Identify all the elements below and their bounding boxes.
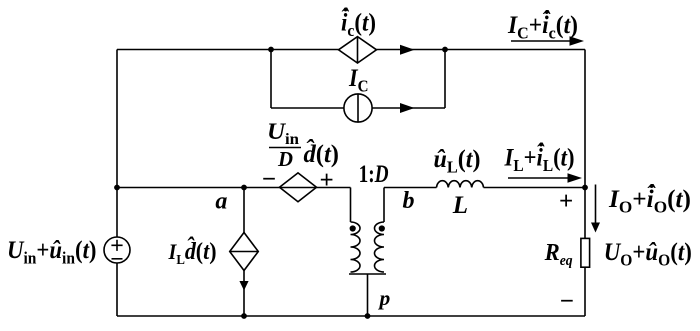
svg-text:p: p [378, 286, 391, 310]
arrowhead on ic branch top [400, 45, 415, 55]
wire node b riser [383, 188, 385, 223]
wire ic branch lower horizontal right [372, 107, 445, 109]
svg-text:IL+i̇̂L(t): IL+i̇̂L(t) [504, 142, 575, 175]
svg-text:+: + [320, 167, 334, 194]
svg-text:+: + [559, 188, 573, 215]
wire bottom rail [117, 315, 585, 317]
wire ILd source top lead [243, 188, 245, 233]
wire right rail upper [584, 50, 586, 239]
arrow line for IL+iL label [508, 177, 569, 179]
inductor L [437, 181, 484, 188]
svg-text:D: D [277, 147, 293, 171]
wire ic branch right riser [444, 50, 446, 109]
transformer T1 left winding [351, 222, 361, 272]
svg-text:a: a [215, 189, 227, 215]
svg-text:L: L [452, 192, 468, 219]
transformer T1 right winding [375, 222, 385, 272]
arrowhead IC+ic label arrow [570, 36, 585, 46]
arrowhead on IC branch bottom [400, 103, 415, 113]
voltage source Uin circle [104, 237, 130, 263]
current source IC circle [344, 94, 372, 122]
wire ic branch left drop [270, 50, 272, 109]
svg-text:ûL(t): ûL(t) [434, 146, 481, 177]
voltage source minus sign [112, 258, 123, 260]
node junction top left of ic branch [268, 47, 274, 53]
resistor Req [581, 238, 590, 267]
voltage source plus sign [111, 240, 122, 251]
svg-text:IC+i̇̂c(t): IC+i̇̂c(t) [507, 10, 578, 43]
wire inductor to right rail [484, 187, 586, 189]
wire left rail upper [116, 50, 118, 238]
wire drop to transformer left winding [350, 188, 352, 223]
wire ic branch lower horizontal left [271, 107, 344, 109]
svg-text:IO+i̇̂O(t): IO+i̇̂O(t) [608, 184, 691, 217]
dependent current source ILd diamond [230, 233, 259, 271]
arrowhead IL+iL label arrow [568, 173, 583, 183]
node junction right rail middle [582, 185, 588, 191]
wire left rail lower [116, 263, 118, 316]
node junction top right of ic branch [442, 47, 448, 53]
wire ILd source bottom lead [243, 271, 245, 317]
svg-text:ILd̂(t): ILd̂(t) [168, 237, 217, 268]
svg-text:b: b [403, 188, 415, 214]
svg-text:−: − [262, 166, 276, 193]
node p junction [365, 313, 371, 319]
arrow line for IC+ic label [511, 40, 572, 42]
svg-text:Uin: Uin [267, 119, 299, 148]
transformer T1 bottom bar [349, 273, 386, 275]
dependent current source ic diamond [339, 37, 377, 63]
transformer left polarity dot [350, 225, 356, 231]
svg-text:1:D: 1:D [359, 161, 389, 188]
svg-text:Req: Req [544, 240, 573, 269]
node junction bottom below ILd [241, 313, 247, 319]
fraction bar [269, 147, 301, 149]
svg-text:IC: IC [348, 65, 368, 96]
svg-text:i̇̂c(t): i̇̂c(t) [341, 7, 376, 40]
current source IC internal bar [357, 94, 359, 122]
arrow line for IO current [595, 185, 597, 224]
svg-text:d̂(t): d̂(t) [304, 139, 340, 168]
svg-text:−: − [560, 288, 574, 315]
wire right rail lower [584, 268, 586, 317]
svg-text:UO+ûO(t): UO+ûO(t) [604, 239, 692, 270]
transformer right polarity dot [379, 225, 385, 231]
arrowhead IO arrow down [591, 223, 600, 233]
wire middle horizontal (left rail to transformer) [117, 187, 351, 189]
arrowhead ILd source down [239, 281, 248, 291]
wire top rail right of ic diamond [377, 49, 586, 51]
svg-text:Uin+ûin(t): Uin+ûin(t) [7, 237, 97, 268]
wire node b to inductor [384, 187, 437, 189]
node a junction [241, 185, 247, 191]
dependent voltage source Uin/D diamond [280, 173, 317, 202]
node junction middle left rail [114, 185, 120, 191]
wire top rail left of ic diamond [117, 49, 339, 51]
wire transformer center tap to node p [367, 274, 369, 316]
